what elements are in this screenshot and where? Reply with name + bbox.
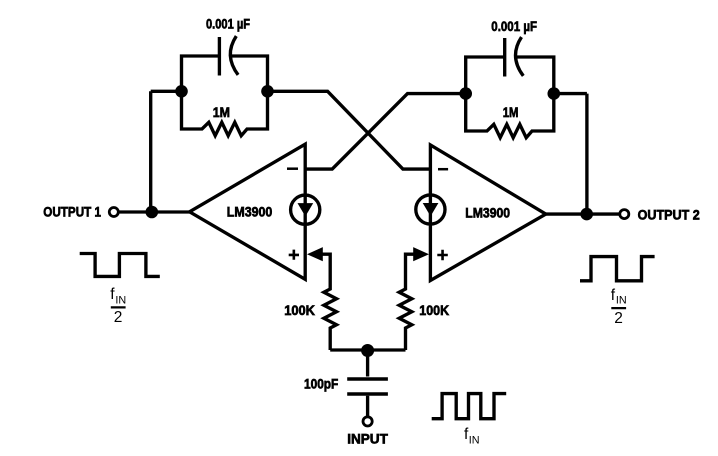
svg-text:0.001 µF: 0.001 µF: [491, 18, 537, 34]
svg-text:100K: 100K: [284, 302, 315, 318]
svg-text:IN: IN: [115, 295, 126, 307]
svg-text:100K: 100K: [419, 302, 449, 318]
svg-text:LM3900: LM3900: [227, 204, 273, 220]
svg-text:2: 2: [614, 310, 623, 327]
svg-text:OUTPUT 1: OUTPUT 1: [43, 203, 101, 219]
svg-text:1M: 1M: [503, 104, 519, 120]
svg-text:OUTPUT 2: OUTPUT 2: [638, 206, 700, 222]
svg-text:IN: IN: [616, 294, 627, 306]
svg-text:0.001 µF: 0.001 µF: [206, 16, 250, 32]
svg-text:LM3900: LM3900: [465, 205, 510, 221]
svg-text:1M: 1M: [213, 104, 230, 120]
svg-text:2: 2: [114, 309, 123, 326]
svg-text:INPUT: INPUT: [347, 430, 388, 446]
svg-text:IN: IN: [469, 435, 480, 447]
svg-text:100pF: 100pF: [304, 376, 339, 392]
